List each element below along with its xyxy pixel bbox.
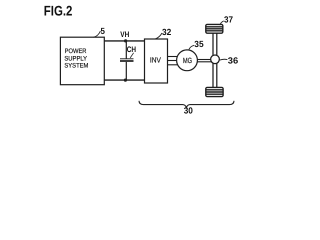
power supply system box 5	[60, 37, 104, 84]
svg-text:INV: INV	[150, 56, 161, 65]
svg-text:SYSTEM: SYSTEM	[64, 63, 88, 70]
svg-text:MG: MG	[183, 56, 192, 65]
svg-text:FIG.2: FIG.2	[44, 3, 73, 19]
svg-text:37: 37	[224, 15, 233, 25]
leader line to label 35	[189, 45, 194, 50]
junction node on bottom rail	[124, 79, 127, 82]
leader line to label 32	[156, 33, 163, 39]
differential gear circle 36	[211, 55, 220, 64]
brace for group 30	[139, 101, 234, 108]
leader line to label 36	[220, 58, 228, 61]
wheel bottom	[206, 87, 223, 96]
leader line to label 5	[93, 31, 100, 37]
junction node on top rail	[124, 39, 127, 42]
wire: bottom DC rail	[104, 79, 144, 81]
svg-text:POWER: POWER	[65, 48, 87, 55]
wheel top 37	[206, 24, 223, 33]
svg-text:SUPPLY: SUPPLY	[64, 55, 87, 62]
drive shaft wires MG to differential	[197, 60, 212, 62]
svg-text:VH: VH	[120, 30, 129, 39]
axle wires lower	[213, 63, 217, 88]
capacitor CH	[120, 41, 134, 80]
svg-text:5: 5	[101, 26, 105, 36]
svg-text:36: 36	[228, 56, 238, 66]
svg-text:30: 30	[184, 106, 193, 116]
svg-text:35: 35	[194, 39, 203, 49]
three-phase wires INV to MG	[168, 57, 179, 65]
wire: top DC rail	[104, 40, 144, 42]
leader line to label 37	[220, 21, 224, 25]
leader line to label CH	[130, 53, 133, 58]
svg-text:32: 32	[162, 27, 171, 37]
svg-text:CH: CH	[127, 45, 136, 54]
axle wires upper	[213, 33, 217, 56]
inverter box INV	[145, 39, 168, 83]
motor-generator MG	[177, 50, 198, 71]
